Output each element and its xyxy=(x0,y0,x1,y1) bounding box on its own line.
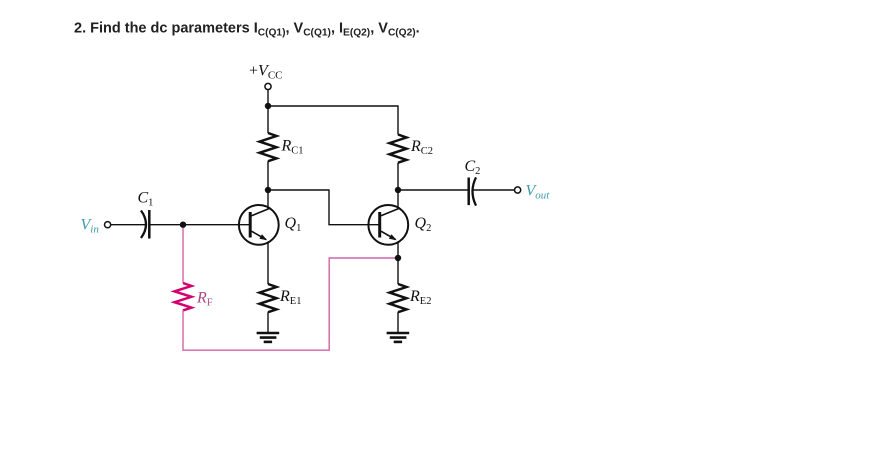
transistor Q1 xyxy=(239,205,279,245)
wire Vin to C1 xyxy=(111,224,146,226)
capacitor C2 xyxy=(469,177,476,205)
transistor Q2 xyxy=(368,205,408,245)
wire node E to C2 xyxy=(398,189,468,191)
svg-text:2. Find the dc parameters IC(Q: 2. Find the dc parameters IC(Q1), VC(Q1)… xyxy=(74,21,420,39)
resistor RE1 xyxy=(260,284,277,312)
junction node C (Q1 base / RF) xyxy=(180,222,186,228)
wire RF feedback pink loop xyxy=(182,228,184,283)
resistor RC1 xyxy=(260,133,277,161)
ground (RE1) xyxy=(257,333,280,342)
svg-text:RF: RF xyxy=(196,290,213,309)
wire interstage node B to Q2 base xyxy=(268,190,379,225)
svg-text:C1: C1 xyxy=(138,190,154,209)
wire node C to Q1 base xyxy=(183,224,250,226)
ground (RE2) xyxy=(387,333,410,342)
wire C2 to Vout xyxy=(474,189,515,191)
wire Q1 collector xyxy=(267,190,269,209)
svg-text:RC2: RC2 xyxy=(410,138,433,157)
svg-text:C2: C2 xyxy=(465,158,481,177)
svg-text:+VCC: +VCC xyxy=(249,63,283,82)
node Vout terminal xyxy=(515,187,521,193)
title: problem statement xyxy=(74,21,420,39)
wire RE1 to ground xyxy=(267,312,269,333)
wire RC2 to node E xyxy=(397,163,399,190)
wire top rail to RC2 xyxy=(268,106,398,135)
junction node B (Q1 collector) xyxy=(265,187,271,193)
svg-text:Vout: Vout xyxy=(526,183,551,202)
resistor RC2 xyxy=(390,135,407,163)
capacitor C1 xyxy=(141,210,149,239)
wire Q1 emitter to RE1 xyxy=(267,242,269,284)
wire node D to RE2 xyxy=(397,258,399,284)
wire Q2 emitter to node D xyxy=(397,242,399,258)
junction VCC rail node xyxy=(265,103,271,109)
resistor RF xyxy=(175,283,192,310)
resistor RE2 xyxy=(390,284,407,312)
junction node D (Q2 emitter / feedback) xyxy=(395,255,401,261)
svg-text:RE1: RE1 xyxy=(279,288,301,307)
svg-text:Q1: Q1 xyxy=(285,215,302,234)
svg-text:RE2: RE2 xyxy=(409,288,431,307)
label +VCC xyxy=(249,63,283,82)
svg-text:Q2: Q2 xyxy=(415,215,432,234)
wire C1 to node C xyxy=(151,224,184,226)
wire VCC rail to RC1 xyxy=(267,106,269,133)
wire RC1 to node B xyxy=(267,161,269,190)
wire RE2 to ground xyxy=(397,312,399,333)
node +VCC terminal xyxy=(265,83,271,89)
wire RF bottom pink loop xyxy=(183,258,398,350)
wire Q2 collector xyxy=(397,190,399,209)
junction node E (Q2 collector) xyxy=(395,187,401,193)
svg-text:RC1: RC1 xyxy=(281,137,304,156)
svg-text:Vin: Vin xyxy=(81,217,100,236)
node Vin terminal xyxy=(105,222,111,228)
wire VCC terminal to rail xyxy=(267,90,269,106)
